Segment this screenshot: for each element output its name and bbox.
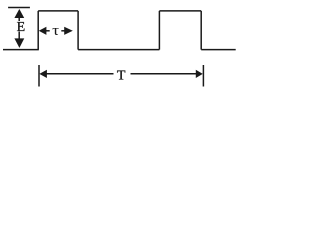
svg-text:E: E <box>17 20 26 35</box>
svg-text:τ: τ <box>52 23 59 39</box>
tau arrow left tail <box>45 30 50 32</box>
tau arrow left head <box>40 28 46 34</box>
T arrow left segment <box>46 73 114 75</box>
wire pulse 1 falling edge <box>77 11 79 50</box>
tau arrow right head <box>65 28 72 34</box>
E arrow upper shaft <box>18 17 20 22</box>
wire baseline segment 1 <box>3 49 39 51</box>
wire pulse 2 top <box>159 10 201 12</box>
wire pulse 2 rising edge <box>158 11 160 50</box>
T dimension left extension tick <box>38 65 40 87</box>
wire baseline segment 2 <box>78 49 159 51</box>
tau arrow right tail <box>61 30 65 32</box>
T dimension right extension tick <box>202 65 204 87</box>
T arrow right segment <box>131 73 198 75</box>
wire pulse 1 rising edge <box>37 11 39 50</box>
E arrow lower shaft <box>18 32 20 40</box>
svg-text:T: T <box>117 69 126 84</box>
T arrow right head <box>196 71 201 77</box>
wire pulse 2 falling edge <box>200 11 202 50</box>
T arrow left head <box>41 71 47 77</box>
wire baseline segment 3 <box>201 49 236 51</box>
E arrow down head <box>15 39 23 47</box>
wire pulse 1 top <box>38 10 78 12</box>
amplitude cap line <box>8 7 30 9</box>
E arrow up head <box>15 10 23 17</box>
